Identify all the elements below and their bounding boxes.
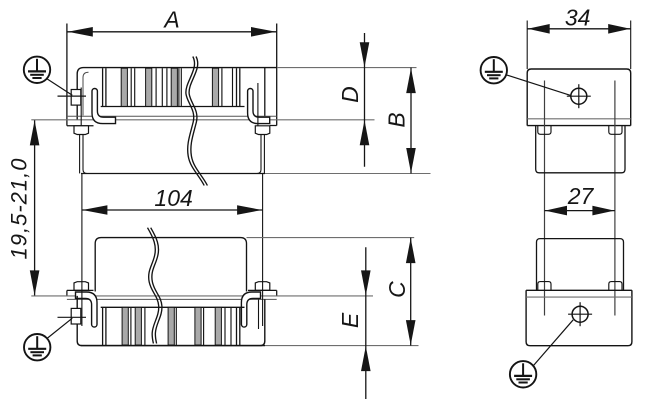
- svg-text:D: D: [337, 86, 363, 103]
- upper housing insert right edge: [264, 68, 266, 117]
- end view screw hole crosshair (bottom): [568, 302, 592, 326]
- upper hood left bottom corner: [83, 170, 87, 174]
- upper flange inner line: [67, 115, 277, 117]
- end view screw tabs (bottom): [538, 282, 551, 291]
- dimension 27 left arrow: [545, 206, 567, 216]
- lower right J-hook guide (foot right): [241, 292, 260, 327]
- lower insert body outline: [77, 296, 265, 346]
- svg-text:19,5-21,0: 19,5-21,0: [6, 158, 31, 260]
- svg-text:B: B: [384, 112, 410, 127]
- upper right screw axis line: [257, 83, 259, 126]
- lower contact thin lines: [130, 307, 132, 345]
- upper earth terminal cross line: [58, 95, 87, 97]
- svg-text:104: 104: [154, 185, 192, 211]
- upper contact chamber left wall: [102, 68, 104, 106]
- upper left screw head foot: [74, 126, 89, 135]
- upper left screw shaft lines: [79, 135, 81, 174]
- dimension B top arrow: [406, 68, 416, 93]
- lower contact bars (gray): [122, 307, 128, 345]
- dimension 104 left extension line: [81, 174, 83, 282]
- dimension 19,5-21,0 bottom arrow: [30, 270, 40, 295]
- upper housing inner corner lines: [83, 72, 89, 115]
- end view earth leader (bottom): [533, 320, 573, 366]
- dimension C line: [410, 238, 412, 346]
- upper contact thin lines: [130, 68, 132, 106]
- lower left J-hook guide (foot left): [76, 292, 98, 327]
- dimension C bottom arrow: [406, 320, 416, 345]
- dimension A left extension / housing left bracket edge: [66, 24, 68, 126]
- lower hood top outline: [95, 238, 246, 292]
- upper earth terminal block: [71, 90, 81, 106]
- upper mounting flange line (long): [31, 119, 374, 121]
- dimension A left arrow: [68, 27, 93, 37]
- upper hood right bottom corner: [257, 170, 261, 174]
- dimension 34 line: [527, 28, 631, 30]
- lower left screw axis line through foot: [81, 282, 83, 327]
- lower body bottom edge / C-E reference line: [81, 345, 265, 347]
- end view insert section (top): [536, 126, 625, 173]
- upper left bracket bottom edge: [67, 125, 94, 127]
- lower contact chamber right wall: [236, 307, 238, 345]
- lower flange inner line: [67, 298, 277, 300]
- end view earth leader (top): [505, 75, 570, 96]
- lower left bracket top edge: [67, 289, 94, 291]
- upper right screw head foot: [255, 126, 269, 135]
- upper right screw shaft lines: [260, 135, 262, 170]
- end view body step line (bottom): [526, 289, 632, 291]
- end view hood flange line: [527, 118, 631, 120]
- dimension 27 line: [545, 210, 615, 212]
- upper earth leader line: [47, 79, 73, 96]
- dimension 19,5-21,0 top arrow: [30, 120, 40, 145]
- lower earth leader line: [47, 318, 73, 338]
- upper right J-hook guide: [248, 89, 270, 124]
- lower earth terminal cross line: [58, 316, 87, 318]
- lower right bracket top edge: [248, 289, 277, 291]
- upper break line (wavy): [186, 57, 204, 186]
- end view inner wall / 27 extension lines: [544, 81, 546, 316]
- lower hood top reference extension for C: [247, 237, 415, 239]
- upper earth symbol circle: [24, 57, 50, 83]
- dimension A right extension / housing right bracket edge: [276, 24, 278, 126]
- dimension 34 extension lines: [526, 21, 528, 70]
- dimension 34 left arrow: [528, 24, 550, 34]
- lower right screw axis line: [258, 299, 260, 329]
- lower earth terminal block: [71, 308, 81, 324]
- svg-text:E: E: [337, 312, 363, 328]
- svg-text:34: 34: [565, 5, 591, 31]
- lower left screw head foot: [74, 282, 89, 291]
- dimension 104 left arrow: [82, 205, 107, 215]
- dimension 19,5-21,0 line: [34, 120, 36, 295]
- upper body bottom edge / B reference line: [81, 173, 265, 175]
- svg-text:27: 27: [567, 183, 595, 209]
- lower right screw axis line through foot: [262, 282, 264, 327]
- dimension 34 right arrow: [608, 24, 630, 34]
- lower mounting flange line (long): [31, 295, 373, 297]
- upper housing body outline top/left: [77, 68, 277, 120]
- end view screw tabs (top): [538, 126, 551, 135]
- end view body outline (bottom): [526, 290, 632, 345]
- dimension B line: [410, 68, 412, 174]
- dimension C top arrow: [406, 238, 416, 263]
- body top reference extension for D and B: [277, 67, 417, 69]
- upper contact row bottom line: [101, 106, 245, 108]
- lower earth symbol circle: [24, 334, 50, 360]
- svg-text:C: C: [384, 281, 410, 298]
- dimension 104 line: [82, 209, 263, 211]
- end view hood outline (top): [527, 69, 631, 126]
- end view earth symbol circle (bottom): [510, 361, 536, 387]
- end view hood section (bottom): [537, 239, 624, 291]
- upper contact chamber right wall: [236, 68, 238, 106]
- dimension 27 right arrow: [592, 206, 614, 216]
- upper left screw axis line: [80, 88, 82, 126]
- dimension A line: [67, 31, 276, 33]
- upper right bracket bottom edge: [270, 125, 277, 127]
- lower contact chamber left wall: [102, 307, 104, 345]
- dimension D line with outside arrows: [364, 33, 366, 167]
- dimension 104 right extension line: [262, 174, 264, 282]
- end view hood bottom step line: [527, 125, 631, 127]
- upper contact bars (gray): [121, 68, 127, 106]
- end view earth symbol circle (top): [481, 57, 507, 83]
- dimension E line with outside arrows: [365, 247, 367, 399]
- dimension A right arrow: [251, 27, 276, 37]
- lower break line (wavy): [148, 228, 159, 344]
- end view body flange line (bottom): [526, 296, 632, 298]
- svg-text:A: A: [162, 6, 179, 32]
- dimension 104 right arrow: [237, 205, 262, 215]
- dimension B bottom arrow: [406, 148, 416, 173]
- lower contact row top line: [101, 306, 245, 308]
- upper left J-hook guide: [92, 89, 116, 124]
- end view screw hole crosshair (top): [567, 84, 591, 108]
- lower right screw head foot: [255, 282, 269, 291]
